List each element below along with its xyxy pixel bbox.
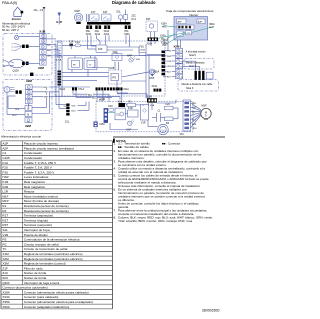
- svg-text:Conector (para cableado): Conector (para cableado): [24, 295, 59, 299]
- electronics box: [174, 17, 208, 41]
- svg-text:Placa de circuito impreso: Placa de circuito impreso: [24, 142, 58, 146]
- svg-text:2.: 2.: [114, 149, 117, 153]
- svg-text:TC: TC: [89, 64, 92, 66]
- svg-text:Regleta de terminales (control: Regleta de terminales (control): [24, 262, 66, 266]
- svg-text:X2M: X2M: [38, 66, 45, 70]
- svg-text:PS: PS: [2, 238, 6, 242]
- svg-text:WHT: WHT: [47, 50, 52, 52]
- pcb A2P outline: [96, 102, 193, 132]
- svg-text:S1L: S1L: [65, 121, 70, 124]
- svg-text:Interior: Interior: [12, 17, 21, 21]
- wire pair4 drop: [125, 35, 127, 44]
- connector X21A pair: [118, 87, 130, 91]
- teal wire X23A: [167, 34, 175, 39]
- svg-text:X60A: X60A: [209, 23, 215, 26]
- wire x71a to x1a: [121, 90, 123, 103]
- wire a1p v5: [116, 52, 118, 54]
- svg-text:BLK: BLK: [15, 109, 20, 111]
- wire a1p h6: [107, 46, 140, 48]
- wire F2 out: [183, 65, 200, 67]
- led HAP with SS1: [127, 54, 141, 62]
- teal wire f3u: [108, 112, 115, 114]
- svg-text:X15A: X15A: [99, 123, 105, 126]
- teal wire b: [157, 33, 186, 39]
- wire L to stack: [28, 104, 30, 106]
- svg-text:V1R: V1R: [141, 122, 146, 125]
- svg-text:Conector (alimentación eléctri: Conector (alimentación eléctrica para ca…: [24, 290, 89, 294]
- wire ebox drop b: [180, 40, 182, 48]
- svg-text:R2T: R2T: [2, 218, 8, 222]
- svg-text:FBA-A(9): FBA-A(9): [2, 1, 17, 5]
- wire N loop: [7, 113, 25, 115]
- svg-text:YLW: YLW: [167, 61, 171, 63]
- wire a1p h5: [46, 54, 62, 56]
- wire R1T to X18A b: [154, 32, 156, 38]
- svg-text:X3M: X3M: [2, 262, 9, 266]
- wire a1p h4: [46, 49, 59, 51]
- svg-text:K1T: K1T: [91, 11, 96, 14]
- svg-text:X23A: X23A: [163, 39, 169, 42]
- svg-text:X21A: X21A: [95, 33, 101, 36]
- wire x2m to a2p a: [28, 104, 30, 109]
- transmitter circuit TC: [84, 58, 97, 70]
- bus v2: [148, 55, 150, 99]
- svg-text:Z1F: Z1F: [2, 266, 8, 270]
- svg-text:C105: C105: [109, 67, 115, 70]
- svg-text:Z1F: Z1F: [98, 48, 103, 51]
- svg-text:CN: CN: [187, 33, 191, 35]
- connector X1A fan: [180, 100, 191, 136]
- wire pcb drop1: [116, 81, 118, 93]
- svg-text:X20A: X20A: [60, 88, 66, 91]
- diode bridge V1R top: [112, 51, 122, 60]
- wire lbl RED2: [43, 90, 49, 93]
- terminal tick: [43, 7, 45, 9]
- svg-text:BLK: BLK: [164, 44, 169, 46]
- terminal bar connectors X8A X9A X10A X5A: [85, 25, 132, 37]
- svg-text:L1R: L1R: [2, 190, 8, 194]
- svg-text:X2M: X2M: [2, 257, 9, 261]
- wire LN right a: [32, 107, 47, 109]
- svg-text:HAP: HAP: [2, 175, 8, 179]
- svg-text:X25A: X25A: [154, 70, 160, 73]
- wire LN right b: [32, 113, 50, 115]
- svg-text:X5A: X5A: [124, 30, 129, 33]
- svg-text:Antes de conectar, consulte lo: Antes de conectar, consulte los datos té…: [118, 201, 199, 205]
- svg-text:K1R: K1R: [128, 107, 133, 110]
- svg-text:Núcleo de ferrita: Núcleo de ferrita: [24, 271, 47, 275]
- annotation unidad exterior: [186, 50, 206, 56]
- connector X23A: [163, 39, 169, 45]
- wire s1l c: [78, 105, 87, 107]
- svg-text:BLU: BLU: [167, 71, 171, 73]
- notas header: [113, 139, 115, 143]
- svg-text:X13A: X13A: [152, 85, 158, 88]
- connector X13A: [152, 85, 162, 91]
- wire a1p h7: [107, 49, 133, 51]
- splice joint c: [16, 90, 22, 93]
- svg-text:Fusible T, 6,3 A, 250 V: Fusible T, 6,3 A, 250 V: [24, 170, 55, 174]
- splice joint b: [22, 62, 29, 65]
- svg-text:X33A: X33A: [160, 35, 166, 38]
- svg-text:3,15 A: 3,15 A: [139, 49, 146, 52]
- svg-text:K1R: K1R: [2, 180, 9, 184]
- wire inlet c: [29, 45, 40, 47]
- svg-text:Luces indicadoras: Luces indicadoras: [24, 175, 49, 179]
- svg-text:F2U: F2U: [2, 166, 8, 170]
- noise filter Z1F: [96, 45, 107, 53]
- svg-text:X15A: X15A: [64, 105, 70, 108]
- svg-text:F1U: F1U: [2, 161, 8, 165]
- wire v x71a c: [108, 94, 110, 101]
- signal source symbol: [4, 87, 15, 93]
- wire a2p feed l1r: [117, 93, 147, 95]
- svg-text:X71A: X71A: [78, 88, 84, 91]
- splice block small: [30, 73, 33, 76]
- buzzer sym: [150, 69, 156, 80]
- wire L loop: [8, 107, 25, 109]
- svg-text:F1: F1: [181, 61, 183, 63]
- svg-text:8.: 8.: [114, 215, 117, 219]
- svg-text:Regleta de terminales (suminis: Regleta de terminales (suministro eléctr…: [24, 252, 83, 256]
- wire v1r l1r: [148, 103, 150, 106]
- field wiring arrow: [58, 13, 62, 17]
- svg-text:X2M: X2M: [174, 45, 181, 49]
- wire power feed vertical: [43, 8, 45, 44]
- svg-text:Relé magnético: Relé magnético: [24, 180, 45, 184]
- adapter board A3P: [177, 19, 187, 24]
- svg-text:Condensador: Condensador: [24, 151, 42, 155]
- connector X21A vertical: [56, 41, 62, 62]
- label X33A BLU: [160, 35, 166, 41]
- wire v x71a a: [96, 90, 98, 101]
- svg-text:3D090150D: 3D090150D: [202, 309, 220, 313]
- wire earth: [19, 36, 40, 38]
- wire lbl BLK4: [15, 107, 21, 110]
- wire q1di out: [24, 62, 26, 64]
- svg-text:C105: C105: [2, 156, 10, 160]
- svg-text:4.: 4.: [114, 166, 117, 170]
- svg-text:7.: 7.: [114, 208, 117, 212]
- svg-text:D1L: D1L: [117, 11, 122, 14]
- pcb A1P outline: [55, 41, 165, 96]
- wire a1p v3: [61, 55, 63, 96]
- svg-text:HAP: HAP: [126, 129, 131, 132]
- terminal block X1M: [40, 34, 47, 66]
- wire a2p feed long: [62, 96, 120, 98]
- svg-text:Interruptor de fuga a tierra: Interruptor de fuga a tierra: [24, 281, 60, 285]
- svg-text:X1A: X1A: [180, 133, 185, 136]
- wire F1 out: [183, 60, 196, 62]
- svg-text:Alimentación eléctrica común: Alimentación eléctrica común: [1, 135, 42, 139]
- bus wire b: [55, 95, 57, 97]
- adapter board A5P: [177, 31, 184, 37]
- svg-text:BLK: BLK: [44, 87, 49, 89]
- reactor L1R: [147, 95, 157, 107]
- svg-text:BLU: BLU: [92, 98, 97, 100]
- bus wire a: [163, 50, 168, 52]
- wire label BLU3: [76, 90, 112, 99]
- svg-text:K2T: K2T: [103, 11, 108, 14]
- motor M1P: [74, 13, 82, 24]
- wire a1p h2: [62, 44, 75, 46]
- wire lbl BLU4: [12, 113, 18, 116]
- svg-text:Nota 3: Nota 3: [186, 87, 194, 90]
- teal wire e: [181, 34, 186, 36]
- svg-text:T2: T2: [181, 77, 183, 79]
- svg-text:K1R: K1R: [69, 41, 74, 44]
- wire label WHT: [47, 49, 53, 52]
- svg-text:Fusible T, 3,15 A, 250 V: Fusible T, 3,15 A, 250 V: [24, 161, 57, 165]
- earth leakage breaker Q1DI: [9, 59, 25, 68]
- svg-text:■■ : Conector: ■■ : Conector: [162, 142, 180, 146]
- legend table: [1, 141, 113, 309]
- svg-text:M1F: M1F: [202, 104, 208, 108]
- adapter board A4P: [197, 19, 205, 24]
- svg-text:Resistencia (sensor de corrien: Resistencia (sensor de corriente): [24, 209, 69, 213]
- svg-text:M1P: M1P: [2, 199, 8, 203]
- svg-text:R1T: R1T: [2, 214, 8, 218]
- wire r1 to v1r: [136, 104, 141, 106]
- svg-text:Circuito de transmisión de señ: Circuito de transmisión de señal: [24, 247, 68, 251]
- wire f2u r2: [173, 107, 178, 109]
- svg-text:P1: P1: [181, 51, 183, 53]
- thermistor R1T: [146, 18, 158, 31]
- svg-text:Nota 5: Nota 5: [189, 54, 196, 57]
- bus h feed1: [43, 31, 45, 34]
- svg-text:HAP: HAP: [127, 54, 132, 57]
- svg-text:V1R: V1R: [2, 233, 9, 237]
- svg-text:Condensador: Condensador: [24, 156, 42, 160]
- svg-text:BLU: BLU: [72, 110, 77, 112]
- field wiring block: [195, 71, 205, 80]
- wire rc tc out: [71, 70, 73, 73]
- capacitor C1: [115, 108, 125, 120]
- svg-text:N: N: [3, 65, 5, 68]
- svg-text:Q1DI: Q1DI: [13, 68, 19, 72]
- svg-text:Conector (adaptador inalámbric: Conector (adaptador inalámbrico): [24, 305, 69, 309]
- wire a1p v1: [55, 44, 57, 87]
- wires fan fanout: [191, 103, 201, 128]
- svg-text:BLK: BLK: [47, 45, 52, 47]
- svg-text:F2U: F2U: [166, 103, 171, 106]
- svg-text:A2P: A2P: [99, 98, 105, 102]
- capacitor C105: [109, 67, 122, 84]
- connector X15A a2p: [94, 122, 106, 128]
- wire label BLK3: [73, 90, 109, 96]
- svg-text:F2U: F2U: [140, 46, 145, 49]
- svg-text:RC: RC: [73, 64, 77, 66]
- svg-text:Fusible T, 5 A, 250 V: Fusible T, 5 A, 250 V: [24, 166, 53, 170]
- svg-text:A3P: A3P: [178, 20, 183, 23]
- connector X71A: [72, 87, 118, 91]
- resistor R1: [127, 100, 136, 106]
- svg-text:ORG: ORG: [192, 128, 197, 130]
- fan motor M1F: [201, 104, 211, 120]
- svg-text:X5A: X5A: [150, 104, 155, 107]
- wire a1p h9: [122, 72, 150, 77]
- svg-text:Interruptor de boya: Interruptor de boya: [24, 228, 50, 232]
- svg-text:C1: C1: [2, 151, 6, 155]
- diode D1L: [117, 10, 128, 23]
- wire v x71a b: [102, 90, 104, 101]
- wire s1l d: [78, 109, 90, 111]
- svg-text:5.: 5.: [114, 173, 117, 177]
- svg-text:WHT: WHT: [167, 56, 172, 58]
- wire s1l b: [59, 107, 66, 109]
- connector row X60A X61A: [177, 25, 194, 29]
- svg-text:X21A: X21A: [123, 88, 129, 91]
- label X28A PNK: [161, 41, 167, 47]
- svg-text:X2M: X2M: [26, 79, 33, 83]
- svg-text:Motor (bomba de drenaje): Motor (bomba de drenaje): [24, 199, 59, 203]
- svg-text:WHT: WHT: [44, 96, 49, 98]
- wire L to Q1DI: [5, 60, 9, 62]
- terminal L: [25, 106, 32, 111]
- svg-text:M1P: M1P: [75, 9, 81, 13]
- remote unit box: [206, 72, 213, 79]
- wire inlet d: [25, 62, 40, 64]
- svg-text:X9A: X9A: [95, 30, 100, 33]
- connector X1A black: [118, 100, 126, 107]
- wire a1p h8: [147, 54, 162, 56]
- svg-text:1.: 1.: [114, 142, 117, 146]
- splice joint a: [22, 45, 29, 48]
- svg-text:Filtro de ruido: Filtro de ruido: [24, 266, 43, 270]
- wire c1b: [152, 117, 157, 119]
- svg-text:F3U: F3U: [2, 170, 8, 174]
- svg-text:Reactor: Reactor: [24, 190, 35, 194]
- wire M1P pair: [85, 14, 87, 22]
- svg-text:X1M: X1M: [2, 252, 9, 256]
- fuse F2Ub: [165, 103, 174, 110]
- wire lbl WHT2: [43, 95, 49, 98]
- wire s1l a: [55, 87, 57, 105]
- svg-text:X2M: X2M: [25, 124, 32, 128]
- wire pcb drop2: [125, 103, 127, 105]
- svg-text:PS: PS: [113, 76, 117, 80]
- terminal N: [25, 112, 32, 117]
- wire R1T to X18A a: [150, 32, 152, 38]
- wire a1p v8: [94, 56, 96, 68]
- wire k1r c1: [125, 113, 128, 115]
- wire bottom a2p2: [147, 120, 149, 127]
- svg-text:GRN: GRN: [47, 56, 52, 58]
- svg-text:Z1C: Z1C: [2, 271, 9, 275]
- svg-text:Placa de circuito impreso (ven: Placa de circuito impreso (ventilador): [24, 146, 74, 150]
- svg-text:A2P: A2P: [2, 146, 8, 150]
- svg-text:WHT: WHT: [209, 27, 215, 29]
- wires X25A to X2M: [163, 50, 176, 79]
- connector X18A: [147, 38, 159, 46]
- svg-text:3.: 3.: [114, 159, 117, 163]
- wire label GRN: [47, 54, 53, 57]
- svg-text:X18A: X18A: [147, 43, 153, 46]
- annotation mando: [184, 59, 214, 70]
- connector X20A strip: [58, 71, 66, 92]
- svg-text:BLK: BLK: [72, 106, 77, 108]
- svg-text:K2R: K2R: [2, 185, 9, 189]
- wire ebox drop a: [177, 40, 179, 46]
- wire a1p h1: [46, 38, 56, 40]
- svg-text:M: M: [77, 16, 79, 20]
- svg-text:1N~, 1,5: 1N~, 1,5: [34, 9, 44, 12]
- svg-text:Resistencia (sensor de corrien: Resistencia (sensor de corriente): [24, 204, 69, 208]
- connector X25A strip: [154, 51, 166, 76]
- svg-text:X33A: X33A: [2, 295, 10, 299]
- receiver circuit RC: [68, 58, 83, 70]
- svg-text:X28A: X28A: [2, 290, 10, 294]
- terminal block X2M control: [176, 48, 183, 78]
- wire a1p v2: [58, 50, 60, 92]
- connector CN1: [186, 31, 192, 35]
- teal wire a: [163, 26, 177, 28]
- svg-text:F3U: F3U: [108, 105, 113, 108]
- house icon Interior: [14, 7, 23, 16]
- wire pair1 drop: [87, 35, 89, 49]
- wire a1p h3: [46, 43, 56, 45]
- relay K1R: [128, 107, 139, 117]
- capacitor C1b: [157, 111, 162, 122]
- svg-text:X35A: X35A: [2, 300, 10, 304]
- svg-text:X60A: X60A: [2, 305, 10, 309]
- svg-text:FG: FG: [162, 130, 165, 132]
- svg-text:Motor (ventilador interior): Motor (ventilador interior): [24, 194, 58, 198]
- svg-text:BLU: BLU: [12, 115, 17, 117]
- wire lbl BLK2: [43, 85, 49, 88]
- wire stack2 b: [32, 91, 59, 93]
- svg-text:Conector (alimentación eléctri: Conector (alimentación eléctrica para el…: [24, 300, 93, 304]
- notes text block: [114, 142, 213, 223]
- wire pair3 drop: [105, 35, 107, 45]
- svg-text:A1P: A1P: [2, 142, 8, 146]
- svg-text:X1M: X1M: [39, 29, 46, 33]
- svg-text:Termistor (serpentín): Termistor (serpentín): [24, 223, 52, 227]
- wire a1p v6: [114, 62, 116, 70]
- svg-text:ORG: ORG: [167, 66, 172, 68]
- svg-text:A la unidad exterior: A la unidad exterior: [186, 50, 206, 53]
- common supply boundary box: [3, 79, 52, 130]
- bus v1: [145, 44, 147, 98]
- resistor R2: [165, 117, 174, 125]
- wire to bar: [58, 17, 60, 25]
- terminal block X2M: [26, 85, 33, 104]
- remote controller box Nota 3: [178, 80, 219, 91]
- terminal earth: [25, 118, 32, 123]
- svg-text:RED: RED: [162, 26, 167, 28]
- power inlet boundary box: [3, 34, 52, 76]
- chassis bar: [87, 22, 131, 25]
- wire pair2 drop: [96, 35, 98, 38]
- wire N to Q1DI: [5, 65, 9, 66]
- svg-text:BLK: BLK: [167, 77, 171, 79]
- svg-text:Z2C: Z2C: [2, 276, 9, 280]
- svg-text:P2: P2: [181, 56, 183, 58]
- wire to field a: [195, 61, 197, 71]
- wire labels fan: [192, 103, 197, 130]
- svg-text:A4P: A4P: [198, 20, 203, 23]
- teal wire d: [167, 35, 181, 43]
- svg-text:60 Hz, 220 V: 60 Hz, 220 V: [2, 28, 19, 32]
- svg-text:Circuito receptor de señal: Circuito receptor de señal: [24, 242, 59, 246]
- wire a1p v7: [118, 62, 120, 70]
- svg-text:Relé magnético: Relé magnético: [24, 185, 45, 189]
- wire l1r f2u: [157, 102, 176, 104]
- power supply PS: [111, 74, 119, 81]
- connector S1L strip: [66, 104, 76, 116]
- svg-text:M1P: M1P: [150, 78, 155, 80]
- svg-text:Diagrama de cableado: Diagrama de cableado: [112, 0, 156, 5]
